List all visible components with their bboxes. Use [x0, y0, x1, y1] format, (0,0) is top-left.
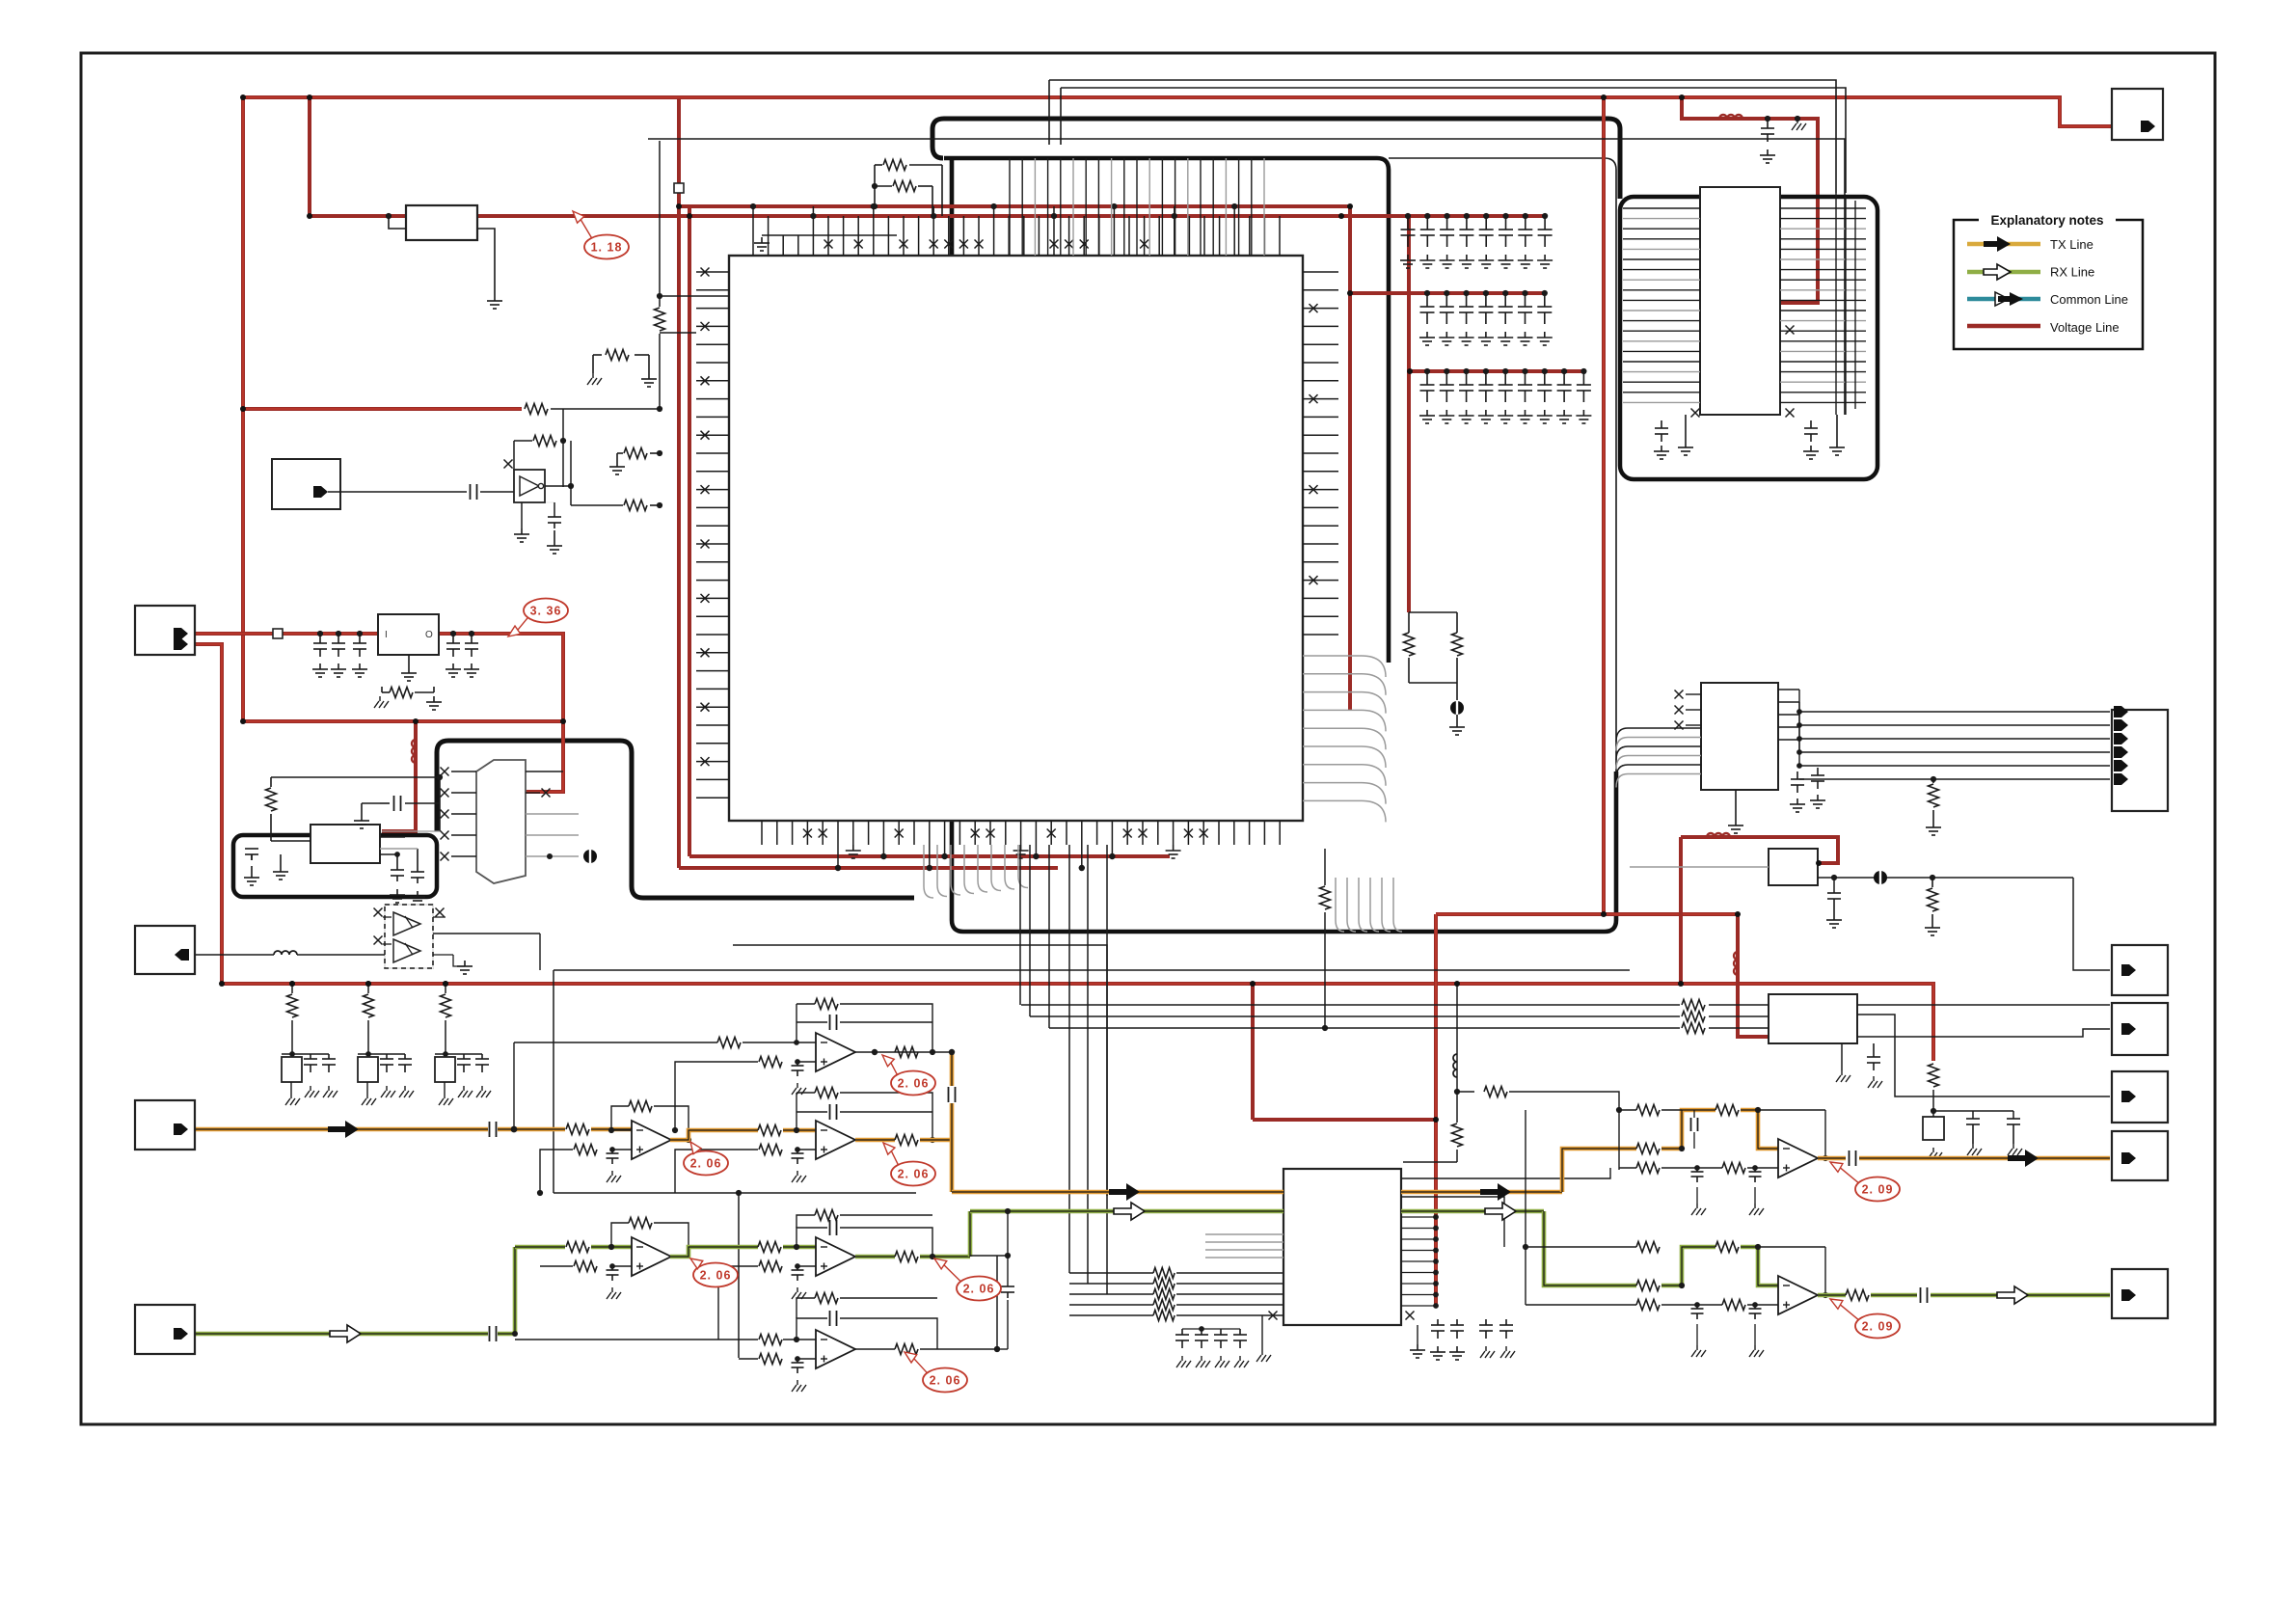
bias resistor A: [624, 448, 647, 459]
U6 plus network: [797, 1358, 816, 1360]
serial gnd stub: [1735, 790, 1737, 820]
wire x766 drop: [738, 1193, 740, 1358]
RX to riser: [920, 1255, 970, 1259]
codec output cap: [1833, 878, 1835, 893]
RX riser: [498, 1247, 515, 1334]
PLL xmark right: [1786, 326, 1795, 335]
voltage line regulator loop: [196, 634, 563, 792]
RX down jog: [1544, 1211, 1636, 1286]
U4 fb resistor: [797, 1215, 815, 1228]
codec gray input: [1630, 866, 1769, 868]
codec red stub: [1819, 862, 1838, 865]
inverter output: [545, 485, 571, 487]
serial to connector harness: [1799, 711, 2110, 713]
connector CN7: [2112, 945, 2168, 995]
callout 2.06 e: [957, 1277, 1001, 1301]
RX to opamp U5: [515, 1245, 565, 1250]
mux out thin A: [1401, 1168, 1610, 1178]
resistor RX mid: [758, 1242, 781, 1253]
PLL right risers: [1835, 193, 1837, 415]
interface out B: [1857, 1015, 2110, 1096]
CPU left pin field: [696, 271, 729, 273]
TX mid jog: [1661, 1110, 1715, 1149]
svg-text:2. 06: 2. 06: [700, 1269, 732, 1283]
RX line input run: [196, 1332, 488, 1337]
resistor TX out B: [1715, 1105, 1739, 1116]
wire x574 drop: [553, 970, 554, 1193]
mux side res: [1456, 984, 1458, 1092]
U6 fb resistor: [797, 1298, 815, 1318]
CPU IC body: [729, 256, 1303, 821]
voltage loop small box: [1681, 837, 1838, 863]
bead tap wire: [389, 216, 406, 229]
connector CN1 (power): [135, 606, 195, 655]
mux right pin stubs: [1401, 1216, 1436, 1218]
resistor RX out A: [1636, 1281, 1660, 1291]
voltage vertical x704: [677, 99, 681, 868]
svg-text:2. 09: 2. 09: [1862, 1320, 1894, 1334]
voltage vertical x321: [308, 99, 311, 216]
RX into U5: [591, 1245, 632, 1250]
interface feed caps: [1931, 1108, 1936, 1114]
PLL decoupling cap C: [1810, 420, 1812, 428]
voltage line left vertical: [241, 97, 245, 721]
U2 fb cap: [797, 1111, 827, 1113]
voltage rail y948: [1436, 912, 1738, 916]
crystal bias resistor: [270, 777, 272, 787]
voltage vertical x1489 mux rail: [1434, 914, 1438, 1305]
U1 minus input resistor: [743, 1042, 816, 1043]
mux bottom caps left: [1417, 1325, 1418, 1344]
connector CN4 (rx audio in): [135, 1305, 195, 1354]
PLL module boundary: [1620, 197, 1877, 479]
voltage line stub y424: [243, 407, 522, 411]
PLL decoupling cap A: [1661, 420, 1662, 428]
voltage rail y1020 long: [222, 984, 1933, 1061]
codec output line: [1818, 877, 2073, 879]
RX coupling cap: [489, 1326, 491, 1341]
connector CN8: [2112, 1003, 2168, 1055]
U7 fb network: [1619, 1109, 1636, 1111]
inverter xmark: [504, 460, 513, 469]
RX run to mux: [970, 1209, 1283, 1214]
inverter fb resistor: [562, 409, 564, 441]
svg-text:Common Line: Common Line: [2050, 292, 2128, 307]
bus loop bottom edge: [963, 771, 1616, 932]
legend explanatory notes: [1954, 220, 2143, 349]
capacitor bank row1 (8 bypass caps): [1407, 216, 1409, 230]
mux gray inputs: [1205, 1233, 1283, 1235]
U1 fb cap: [797, 1021, 827, 1023]
resistor RX U4 out: [895, 1252, 918, 1262]
voltage branch x1802 down: [1738, 914, 1770, 1037]
bus path from shield module: [437, 741, 914, 898]
ferrite bead box: [406, 205, 477, 240]
interface input resistors: [1021, 1004, 1680, 1006]
voltage under-CPU rail A: [689, 854, 1170, 858]
connector CN9: [2112, 1071, 2168, 1123]
mux top resistor: [1454, 1089, 1460, 1095]
dual buffer gates: [393, 912, 420, 935]
wire y1006: [554, 969, 1630, 971]
svg-text:Explanatory notes: Explanatory notes: [1990, 213, 2103, 228]
TX mux out: [1401, 1190, 1562, 1195]
resistor TX U2 out: [895, 1135, 918, 1146]
TX coupling cap: [489, 1122, 491, 1137]
page border frame: [81, 53, 2215, 1424]
pullup resistor x684: [659, 141, 661, 307]
osc gray links: [380, 848, 418, 850]
svg-text:TX Line: TX Line: [2050, 237, 2093, 252]
TX up jog: [1562, 1149, 1636, 1192]
U3 plus network: [612, 1149, 632, 1150]
U6 out: [855, 1348, 895, 1350]
crystal caps bottom: [396, 866, 398, 870]
inverter input connector box: [272, 459, 340, 509]
CPU top gnd tie: [762, 234, 897, 236]
crystal caps top: [380, 836, 405, 838]
PLL filter cap E: [1767, 119, 1769, 128]
U6 out riser: [996, 1256, 998, 1349]
svg-text:I: I: [385, 630, 388, 640]
callout 2.09 b: [1855, 1314, 1900, 1339]
interface IC body: [1769, 994, 1857, 1043]
svg-text:2. 09: 2. 09: [1862, 1183, 1894, 1197]
inverter gate body: [514, 470, 545, 502]
callout 2.06 a: [891, 1071, 935, 1096]
U1 fb resistor: [797, 1003, 815, 1005]
resistor RX in: [566, 1242, 589, 1253]
junction dots: [240, 95, 246, 100]
op-amp U2: [816, 1121, 855, 1159]
RX U5 to U4: [670, 1247, 758, 1257]
voltage under-CPU rail B: [679, 866, 1058, 870]
inverter input wire: [328, 491, 467, 493]
connector CN5 (top right): [2112, 89, 2163, 140]
buffer pins: [451, 771, 476, 772]
TX run to opamp U3: [498, 1127, 565, 1132]
RX cap node: [1007, 1211, 1009, 1256]
serial IC left pins: [1686, 693, 1701, 695]
svg-text:Voltage Line: Voltage Line: [2050, 320, 2120, 335]
wire drops to mux: [1068, 845, 1070, 1273]
resistor TX out A: [1636, 1144, 1660, 1154]
CPU right pin field: [1303, 271, 1338, 273]
voltage branch y1161: [1253, 1118, 1436, 1122]
U4 fb cap: [797, 1228, 827, 1247]
pulldown right of CPU: [1324, 849, 1326, 885]
U5 plus network: [612, 1265, 632, 1267]
op-amp U3: [632, 1121, 671, 1159]
resistor TX in: [566, 1124, 589, 1135]
svg-text:RX Line: RX Line: [2050, 265, 2094, 280]
regulator output caps: [450, 631, 456, 636]
op-amp U4: [816, 1237, 855, 1276]
U7 plus network: [1619, 1167, 1636, 1169]
RX mid jog: [1661, 1247, 1715, 1286]
callout 2.06 d: [693, 1263, 738, 1287]
op-amp U8: [1778, 1276, 1818, 1314]
RX riser up: [968, 1211, 973, 1257]
callout 2.06 b: [684, 1151, 728, 1176]
svg-text:1. 18: 1. 18: [591, 241, 623, 255]
voltage branch crystal feed: [382, 721, 416, 831]
voltage vertical x1299: [1251, 984, 1255, 1120]
wire drops to interface: [1019, 845, 1021, 1005]
bus loop thin right riser: [1389, 158, 1616, 771]
RX out run: [1818, 1293, 1846, 1298]
regulator gnd: [408, 655, 410, 667]
svg-text:2. 06: 2. 06: [898, 1168, 930, 1181]
svg-text:2. 06: 2. 06: [690, 1157, 722, 1171]
dual buffer wires: [383, 916, 392, 918]
wire top bus A: [1049, 80, 1836, 193]
RX down jog2: [1741, 1247, 1778, 1286]
U8 plus network: [1526, 1304, 1636, 1306]
crystal box body: [311, 825, 380, 863]
codec pulldown resistor: [1931, 878, 1933, 887]
dual buffer dashed box: [385, 905, 433, 968]
regulator body: [378, 614, 439, 655]
interface feed resistor: [1929, 1064, 1939, 1087]
mux input resistor stack: [1069, 1272, 1153, 1274]
voltage vertical x1400 cap-bank feed: [1348, 206, 1352, 711]
square node on rail: [674, 183, 684, 193]
codec box body: [1769, 849, 1818, 885]
crystal cap left: [251, 854, 253, 860]
serial caps: [1796, 771, 1798, 779]
terminator RC groups: [289, 981, 295, 987]
bus capsule bottom edge + collector: [944, 158, 1389, 663]
resistor loop mid: [593, 354, 602, 356]
callout 2.06 c: [891, 1162, 935, 1186]
svg-text:2. 06: 2. 06: [963, 1283, 995, 1296]
wire y1237: [554, 1192, 916, 1194]
RX mux out: [1401, 1209, 1544, 1214]
voltage vertical x715: [688, 206, 691, 856]
mux IC body: [1283, 1169, 1401, 1325]
TX to riser: [920, 1138, 952, 1143]
voltage cap-bank rail row3: [1410, 369, 1584, 373]
interface caps: [1873, 1043, 1875, 1057]
voltage line loop return y748: [243, 719, 563, 723]
capacitor bank row2 (7 bypass caps): [1426, 293, 1428, 307]
capacitor bank row3 (9 bypass caps): [1426, 371, 1428, 385]
svg-text:3. 36: 3. 36: [530, 605, 562, 618]
wire drop A: [1048, 80, 1050, 145]
svg-text:2. 06: 2. 06: [930, 1374, 961, 1388]
resistor pair x1461 divider: [1409, 611, 1457, 613]
TX down jog: [1741, 1110, 1778, 1149]
U8 fb network: [1526, 1246, 1636, 1248]
dual buffer xmarks: [374, 908, 383, 917]
rail-end resistor: [525, 404, 548, 415]
serial IC body: [1701, 683, 1778, 790]
PLL ground stub B: [1685, 415, 1687, 442]
wire top bus B: [1061, 88, 1846, 193]
rx filter inductor: [196, 954, 274, 956]
voltage vertical x1663: [1602, 97, 1606, 914]
resistor pair above CPU: [875, 164, 882, 166]
voltage vertical x1461: [1407, 216, 1411, 612]
CPU bottom pin field: [761, 821, 763, 845]
voltage branch x1743: [1679, 837, 1683, 984]
bus loop left edge (under CPU): [952, 158, 963, 932]
bus capsule top edge and cap: [932, 119, 1608, 158]
TX line input run: [196, 1127, 488, 1132]
op-amp U5: [632, 1237, 671, 1276]
shield boundary: [233, 835, 437, 897]
wire curls into bus: [924, 845, 933, 898]
callout 3.36: [524, 599, 568, 623]
voltage rail y224: [310, 214, 1545, 218]
resistor TX mid: [758, 1125, 781, 1136]
PLL IC body: [1700, 187, 1780, 415]
resistor RX out B: [1715, 1242, 1739, 1253]
TX into U2: [783, 1128, 816, 1133]
op-amp U6: [816, 1330, 855, 1368]
PLL filter gnd F: [1796, 119, 1798, 123]
connector CN2 (rx ant): [135, 926, 195, 974]
RX U4 out: [855, 1255, 895, 1259]
small square node: [273, 629, 283, 638]
voltage rail y214: [679, 204, 1350, 208]
op-amp U1: [816, 1033, 855, 1071]
TX out run: [1818, 1156, 1846, 1161]
TX U2 out: [855, 1138, 895, 1143]
wire drop B: [1060, 88, 1062, 145]
U3 fb resistor: [611, 1129, 632, 1131]
connector CN11 (rx out): [2112, 1269, 2168, 1318]
PLL fan wires: [1623, 207, 1700, 209]
voltage line top rail: [243, 97, 2112, 126]
TX U3 to U2: [670, 1130, 758, 1140]
regulator input caps: [317, 631, 323, 636]
wire top bus C: [648, 139, 1845, 415]
PLL ground stub D: [1836, 415, 1838, 442]
U1 plus network: [797, 1061, 816, 1063]
interface out A: [1857, 1004, 2110, 1006]
mux out thin B: [1401, 1197, 1504, 1247]
TX bottom run to mux: [952, 1190, 1283, 1195]
U4 plus network: [797, 1265, 816, 1267]
buffer out wire: [433, 933, 540, 934]
CPU top pin field: [752, 206, 754, 256]
U5 fb resistor: [611, 1223, 629, 1247]
U1 out: [855, 1051, 952, 1053]
mux decoupling caps: [1181, 1329, 1183, 1335]
callout 2.09 a: [1855, 1177, 1900, 1202]
wire bundle capsule to CPU: [1009, 158, 1011, 256]
regulator adj resistor: [381, 687, 383, 692]
mux xmarks: [1269, 1312, 1278, 1320]
svg-text:2. 06: 2. 06: [898, 1077, 930, 1091]
voltage line from connector pin2: [196, 644, 222, 984]
wire y980: [733, 945, 1107, 1196]
U6 input line: [515, 1339, 758, 1340]
green node caps: [1007, 1256, 1009, 1286]
connector CN6 (serial): [2112, 710, 2168, 811]
TX riser: [950, 1052, 955, 1086]
TX into U3: [591, 1127, 632, 1132]
serial pulldown resistor: [1932, 779, 1934, 783]
interface out C: [1857, 1029, 2110, 1037]
op-amp U7: [1778, 1139, 1818, 1177]
voltage branch to PLL module: [1682, 97, 1818, 303]
callout 2.06 f: [923, 1368, 967, 1393]
U2 plus network: [797, 1149, 816, 1150]
RX into U4: [783, 1245, 816, 1250]
voltage cap-bank rail row2: [1350, 291, 1545, 295]
callout 1.18: [584, 235, 629, 259]
U6 fb cap: [797, 1318, 827, 1340]
inverter gnd cap: [521, 502, 523, 528]
svg-text:O: O: [425, 630, 433, 640]
buffer trapezoid body: [476, 760, 526, 883]
connector CN10 (tx out): [2112, 1131, 2168, 1180]
connector CN3 (tx audio in): [135, 1100, 195, 1150]
bias resistor B: [624, 501, 647, 511]
U2 fb resistor: [797, 1092, 815, 1094]
